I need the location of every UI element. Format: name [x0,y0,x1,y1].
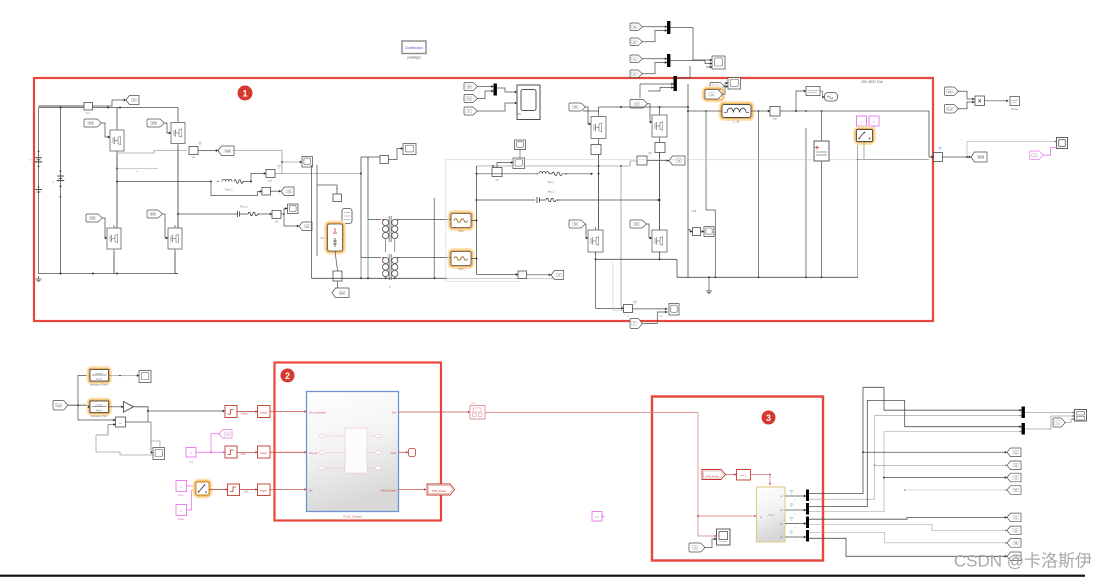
svg-text:Iful: Iful [309,490,313,493]
red terminator theta [409,449,416,457]
pink block p2 [869,116,879,126]
wire vm1 to SAB [198,150,218,152]
sum block s2 [262,188,271,196]
mux bar out2 [1022,423,1025,435]
from tag S6 [569,220,585,228]
wire phase A faint [117,168,158,170]
svg-text:Res_1: Res_1 [225,188,233,192]
wire Q2 leg down [113,252,115,274]
goto tag S7 [1007,486,1021,495]
svg-text:PWM_Enable: PWM_Enable [381,490,397,493]
svg-text:SAB: SAB [225,150,230,153]
manual switch 2 highlighted [194,480,211,497]
wire fan riser 3 [809,400,1022,506]
feedback loop Res_1 [211,182,262,196]
faint area rect [446,160,520,281]
wire out2 to display [1025,416,1075,429]
wire Res_0 to m2 [259,213,273,215]
red goto tag PWM_Enable [427,484,455,495]
wire up to filter1 [78,376,90,406]
from tag mid [1053,418,1065,427]
from tag SH1 [84,119,101,127]
wire bat_1 [520,173,537,175]
sensor I_HF2 highlighted [449,249,473,267]
display Vdc [806,87,820,96]
wire to mux [477,86,494,88]
svg-text:1: 1 [242,89,247,99]
transformer T1 [388,216,390,242]
annotation box 3 (PWM output) [652,397,823,561]
wire sum in [78,405,116,420]
voltage sensor vm3 [637,156,647,165]
sensor sb [518,271,527,279]
svg-text:Continuous: Continuous [405,46,423,50]
bottom bus wire left [39,273,179,275]
svg-text:Vab: Vab [467,86,472,89]
wire sum to scope mid [389,149,404,160]
svg-text:Vou_measured: Vou_measured [309,412,326,415]
wire filter to gain [109,406,124,408]
svg-text:Vou_ref: Vou_ref [309,452,318,455]
wire vm3 to Vhid [647,160,669,162]
wire y166 to vm3 [630,161,637,166]
wire T1 right out [398,219,449,221]
pink wire to scope [1043,148,1056,156]
wire IHF2 out [449,257,451,259]
wire out1 to display [1025,412,1075,414]
svg-text:~PWM: ~PWM [767,513,775,517]
mux bar pwm4 [806,530,809,542]
svg-text:Dset: Dset [179,494,184,497]
wire Vout main [68,404,91,406]
pink from tag Vm [1030,151,1044,160]
svg-text:Vout: Vout [56,404,61,407]
from tag vo highlighted [703,87,724,101]
scope w3s [513,158,525,169]
wire to single2 [237,451,258,453]
from tag Io_A [945,105,959,114]
rate transition Vmea [225,406,237,418]
wire product to display [985,100,1009,102]
wire T1 bottom stubs [385,239,387,252]
red wire controller out Tick [399,411,471,413]
wire iL to scope [477,103,517,111]
wire m2 down to tag [284,214,299,226]
wire vm4 to scope [633,308,668,310]
goto tag TRUE [971,152,987,162]
svg-text:SH3: SH3 [152,122,157,125]
wire gain out [134,407,226,411]
pink block p1 [857,116,867,126]
sensor w7 [591,145,601,155]
voltage sensor vm1 [189,147,198,155]
wire mux1 to scope small [670,28,712,61]
svg-text:powergui: powergui [408,56,421,60]
from tag S7 [630,100,647,109]
mux bar scope [494,84,497,96]
wire into T2 top [361,157,381,258]
scope bottom right [669,304,679,316]
goto tag S5 [1007,473,1021,482]
from tag io [710,83,724,91]
svg-text:Io_A: Io_A [947,108,952,111]
scope2 bottom-left [153,448,165,460]
svg-text:Vm: Vm [1033,154,1037,157]
red wire Tick to box3 [485,412,698,414]
svg-text:Tr: Tr [389,286,391,289]
voltage sensor vm4 [624,305,633,313]
red wire to compare [726,474,737,476]
single block 1 [258,406,271,418]
svg-text:C: C [52,181,54,184]
goto tag P1 [126,96,139,105]
svg-text:PWM_Enable: PWM_Enable [705,476,719,478]
goto tag PCC [551,271,564,280]
red wire down box3 [698,413,757,517]
wire T2 right out [398,257,449,259]
mux bar out1 [1022,407,1025,419]
wire out right to sensor [929,111,934,157]
wires pwm to bars [785,495,806,497]
filter block hardware_Filter1 highlighted [88,367,111,383]
svg-text:Vcd: Vcd [467,98,472,101]
svg-text:Vou: Vou [948,90,953,93]
wire Res_1 up to vac1 [244,174,267,182]
filter block hardware_Filter highlighted [88,399,111,415]
svg-text:L_filt: L_filt [734,120,740,124]
scope1 bottom-left [139,371,151,383]
wire SH4 to Q4 [162,214,168,238]
wire mid rail 1 [311,165,313,278]
svg-text:theta: theta [390,452,396,455]
from tag Vab1 [464,83,477,91]
wire into T1 top [368,157,381,220]
wire sensor feed y159 [858,158,929,160]
SC mid block highlighted [325,222,344,253]
wire fan lower 2 [809,525,1007,531]
wire switch to rate3 [209,489,228,491]
svg-text:1/z: 1/z [595,515,599,519]
feedback loop lower [96,435,160,455]
red wire single1 to controller [270,411,307,413]
scope small top-right [712,56,725,69]
svg-text:CSDN @卡洛斯伊: CSDN @卡洛斯伊 [954,552,1092,571]
svg-text:IHF2: IHF2 [458,268,464,271]
wire mux to scope [497,88,517,92]
wire y111 left [688,110,722,112]
battery block [814,141,829,161]
transformer T2 [388,254,390,280]
manual switch highlighted [854,127,874,143]
svg-text:bat_2: bat_2 [548,190,555,194]
wire iout right [780,110,929,112]
wire fan riser 2 [809,416,1022,500]
svg-text:bat_1: bat_1 [548,180,555,184]
from tag SH4 [147,210,162,218]
svg-text:num(z): num(z) [96,373,103,375]
mosfet Q1 [110,130,124,151]
averaging block [825,93,838,102]
wire Q1 bottom to vm1 [117,151,188,154]
compare to one block [737,470,751,481]
mux bar top2 [667,54,670,67]
scope tr [728,78,741,90]
wire to product [958,91,975,99]
svg-text:single: single [260,489,267,493]
ground right section [708,288,710,291]
single block 2 [258,446,271,458]
mux bar top1 [667,21,670,34]
inductor L_filt highlighted [720,102,753,119]
goto tag M0 [299,222,312,231]
goto tag S6 [1007,539,1021,548]
svg-text:V: V [190,451,192,455]
svg-text:SH2: SH2 [90,217,95,220]
wire phase B to Res_0 [178,213,234,215]
svg-text:num(z): num(z) [96,405,103,407]
wire to TRUE [943,156,972,158]
wire SH2 to Q2 [102,218,107,238]
pink wires to switch [187,485,197,487]
svg-text:SH1: SH1 [89,122,94,125]
svg-text:iout: iout [773,118,777,121]
sensor out [934,153,943,162]
wire sum in 2 [108,424,116,426]
wire Q3 leg [177,147,179,229]
from tag iL [464,107,477,115]
badge 2 [281,369,295,383]
wire w3 up scope [497,163,513,168]
svg-text:SH4: SH4 [151,213,156,216]
goto tag S1 [1007,448,1021,457]
pink constant Dset [176,481,187,492]
pink unit delay block [592,512,602,522]
svg-text:TRUE: TRUE [977,156,984,159]
svg-text:vm: vm [627,316,630,318]
load tank block [342,209,352,224]
wire s2 to M1 [271,190,282,192]
pink constant Dstep [176,505,187,516]
from tag S8 [630,220,646,228]
mosfet Q7 [652,115,667,137]
wire into border mux [640,83,674,85]
svg-text:Dstep: Dstep [178,518,185,521]
ground bottom bus [38,276,40,279]
wire [642,26,667,28]
display out [1075,410,1087,422]
current sensor im1 [84,103,93,111]
pink constant Vref [186,448,196,458]
from tag Vb top [630,38,642,46]
svg-text:single: single [260,411,267,415]
wire sum out [126,411,149,422]
mosfet Q2 [107,228,121,249]
from tag SH3 [147,119,164,127]
svg-text:DaB: DaB [692,210,697,213]
wire m2 junction [281,213,284,215]
mux bar pwm2 [806,503,809,515]
sensor ib [693,228,701,236]
wire to single3 [240,489,258,491]
wire fan riser 4 [809,431,1022,511]
wire fan tag feed 2 [874,464,876,466]
sensor m2 [272,211,281,219]
wire pink to switch [861,126,863,130]
goto tag S4 [1007,526,1021,535]
mosfet Q5 [591,117,606,139]
pink wire to Vset [211,434,219,453]
svg-text:Vmea: Vmea [241,412,248,416]
scope m [302,157,313,168]
from tag Vcd1 [464,95,477,103]
rate transition ref [228,484,240,496]
powergui block [402,41,426,54]
wire SC down [335,251,338,271]
wire rail x758 [758,111,760,277]
svg-text:2: 2 [285,371,290,381]
PWM generator subsystem [757,487,786,542]
goto tag M1 [281,187,294,196]
mosfet Q3 [171,123,185,144]
wire fan tag feed 3 [883,477,885,479]
scope ibs [704,227,714,237]
wire T2 bottom to bus [385,277,387,279]
sensor I_HF1 highlighted [449,211,473,229]
wire to display [796,91,806,111]
wire bat_2 [477,199,536,201]
subsystem ghost interior [345,428,367,473]
wire fan tag feed 1 [862,451,864,453]
wire sb to tag [527,274,552,276]
mosfet Q8 [652,230,667,252]
DC source V1 [38,151,40,153]
svg-text:== 1: == 1 [740,474,746,478]
wire top bus right bridge [583,110,599,112]
svg-text:Tick: Tick [392,412,397,415]
scope w3s2 [515,140,526,150]
svg-text:im1: im1 [86,112,91,115]
wire [642,58,667,60]
sensor w3 [492,168,502,177]
sensor b2 [333,271,342,281]
from tag Ib top [630,70,642,78]
wire S8 to Q8 [646,224,652,238]
wire vac1 long right [275,173,361,175]
wire border mux out [677,66,690,78]
annotation box 2 (controller) [275,363,442,521]
voltage sensor vac1 [266,170,275,178]
wire SH3 to Q3 [164,123,171,133]
mux bar pwm3 [806,517,809,529]
wire legs right bridge [598,155,600,231]
wire mux2 to scope small [670,61,712,64]
mosfet Q4 [168,228,182,249]
resistor Res_1 [234,180,243,183]
wire tap to vm4 [612,262,614,311]
pink goto tag Vset [219,430,232,439]
from tag Vout [53,400,68,410]
main ground bus right [677,276,858,278]
red wire to scope3 [698,516,717,536]
wire fan riser 1 [809,387,1022,493]
goto tag Vhid [669,156,685,165]
red wire single2 to controller [270,451,307,453]
capacitor Res_0 [234,213,238,215]
svg-text:FLLS_Control: FLLS_Control [343,515,362,519]
from tag SH2 [86,214,102,222]
subsystem FLLS_Control [307,392,399,512]
wire long y166 [477,165,631,167]
wire IHF1 out [449,219,451,221]
wire rail x822 [821,161,823,277]
red wire PWM_Enable out [399,489,427,491]
wire fan lower 4 [809,538,1007,556]
red from tag PWM_Enable [702,470,726,480]
from tag bottom border [630,318,642,328]
bottom border line [0,575,1085,577]
wire y166 down to vm4 [621,166,623,307]
wire to sensor sb [477,274,519,276]
wire switch down [863,142,865,160]
svg-text:Vref: Vref [189,461,194,464]
wire border tag to scope [642,312,668,324]
wire mid rail 2 [316,165,318,256]
svg-text:SC: SC [320,237,324,240]
mux bar pwm1 [806,490,809,502]
svg-text:IHF1: IHF1 [458,230,464,233]
from tag Ia top [630,55,642,63]
wire fan tag feed 4 [904,489,906,491]
wire bottom bus right bridge [659,252,661,259]
sensor i2 [333,194,342,202]
red ghost block Tick [470,406,485,420]
goto tag SCC [332,288,349,298]
wire rail x706 [706,111,715,277]
mux bar on border [674,76,677,91]
wire phase A to Res_1 [117,181,211,183]
wire to single1 [237,411,258,413]
wire rail x858 [857,142,859,278]
from tag S5 [569,103,585,111]
wire S7 to Q7 [647,104,652,122]
mid bottom bus [312,277,448,279]
from tag fb3 [689,543,705,552]
wire to scope2 [148,422,153,453]
sum block top mid [380,156,389,164]
wire mid to display [1065,419,1075,423]
scope block main [517,85,540,120]
current sensor iout [770,107,780,117]
wire Q1 leg [116,154,118,228]
wire filter1 to scope1 [109,375,140,377]
svg-text:ref: ref [244,490,247,494]
svg-text:va1: va1 [268,180,273,183]
wire mid rail x476 [476,166,478,275]
svg-text:m: m [1056,422,1058,425]
wire im1 to P1 [93,100,127,106]
top bus wire [39,107,179,109]
wire vertical to scope m [233,151,302,163]
resistor Res_0 [248,212,258,215]
wire Q4 leg down [174,252,176,274]
product block [975,96,985,106]
capacitor C1 [60,170,62,172]
wire b2 to tag [338,281,340,288]
svg-text:hardware_Filter: hardware_Filter [91,415,108,418]
gain triangle [124,402,134,413]
wire DaB rail [687,84,689,277]
wire fb3 to scope3 [705,539,717,548]
